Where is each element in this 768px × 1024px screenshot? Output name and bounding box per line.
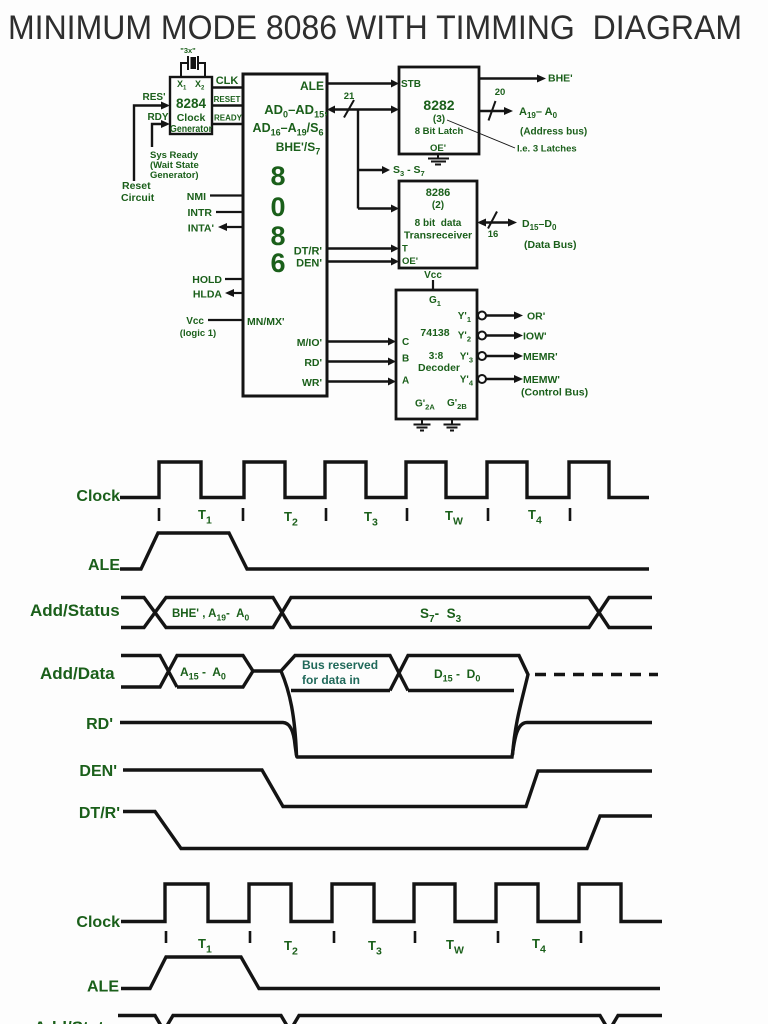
svg-text:74138: 74138 — [420, 327, 449, 339]
svg-text:Vcc: Vcc — [186, 316, 204, 327]
svg-text:MN/MX': MN/MX' — [247, 316, 285, 328]
svg-text:DEN': DEN' — [79, 763, 117, 780]
svg-text:Bus reserved: Bus reserved — [302, 658, 378, 672]
svg-text:Clock: Clock — [177, 112, 206, 124]
svg-text:D15–D0: D15–D0 — [522, 218, 557, 232]
svg-text:Clock: Clock — [76, 488, 120, 505]
svg-text:8: 8 — [270, 161, 285, 191]
svg-text:(logic 1): (logic 1) — [180, 328, 216, 339]
svg-text:8284: 8284 — [176, 96, 207, 111]
svg-text:CLK: CLK — [216, 75, 239, 87]
svg-text:(Data Bus): (Data Bus) — [524, 239, 577, 251]
svg-text:Vcc: Vcc — [424, 270, 442, 281]
svg-text:READY: READY — [214, 114, 243, 123]
svg-text:STB: STB — [401, 79, 421, 90]
svg-text:Reset: Reset — [122, 180, 151, 192]
svg-text:C: C — [402, 337, 409, 348]
svg-text:RDY: RDY — [147, 112, 168, 123]
svg-text:(3): (3) — [433, 114, 445, 125]
svg-text:HOLD: HOLD — [192, 274, 222, 286]
svg-text:RESET: RESET — [214, 95, 241, 104]
svg-text:MEMR': MEMR' — [523, 351, 558, 363]
svg-text:8: 8 — [270, 221, 285, 251]
svg-text:DEN': DEN' — [296, 258, 322, 270]
svg-text:BHE': BHE' — [548, 73, 573, 85]
svg-text:B: B — [402, 354, 409, 365]
svg-text:0: 0 — [270, 192, 285, 222]
svg-text:HLDA: HLDA — [193, 289, 223, 301]
svg-text:OR': OR' — [527, 311, 545, 323]
svg-text:3:8: 3:8 — [429, 351, 444, 362]
svg-text:S3 - S7: S3 - S7 — [393, 164, 425, 178]
svg-text:16: 16 — [488, 229, 499, 240]
svg-text:OE': OE' — [402, 256, 418, 267]
svg-text:T: T — [402, 244, 408, 255]
svg-text:INTR: INTR — [188, 207, 213, 219]
svg-text:(Address bus): (Address bus) — [520, 127, 587, 138]
svg-text:Generator: Generator — [170, 124, 212, 135]
svg-text:8286: 8286 — [426, 187, 450, 199]
svg-text:ALE: ALE — [87, 979, 119, 996]
svg-text:IOW': IOW' — [523, 331, 547, 343]
svg-text:6: 6 — [270, 248, 285, 278]
svg-text:M/IO': M/IO' — [297, 337, 322, 349]
svg-text:I.e. 3 Latches: I.e. 3 Latches — [517, 144, 577, 155]
svg-text:WR': WR' — [302, 377, 322, 389]
svg-text:MEMW': MEMW' — [523, 374, 560, 386]
svg-text:(Control Bus): (Control Bus) — [521, 387, 588, 399]
svg-text:RES': RES' — [143, 92, 166, 103]
svg-text:Circuit: Circuit — [121, 192, 155, 204]
svg-text:20: 20 — [495, 87, 506, 98]
svg-text:Decoder: Decoder — [418, 362, 460, 374]
svg-text:for data in: for data in — [302, 673, 360, 687]
svg-text:OE': OE' — [430, 143, 446, 154]
svg-text:Clock: Clock — [76, 914, 120, 931]
svg-text:A19– A0: A19– A0 — [519, 106, 558, 120]
svg-text:INTA': INTA' — [188, 223, 214, 235]
svg-text:NMI: NMI — [187, 191, 206, 203]
svg-text:MINIMUM MODE 8086 WITH TIMMING: MINIMUM MODE 8086 WITH TIMMING DIAGRAM — [8, 9, 742, 47]
svg-text:Add/Status: Add/Status — [34, 1018, 124, 1024]
svg-text:21: 21 — [344, 91, 355, 102]
svg-text:DT/R': DT/R' — [294, 246, 323, 258]
svg-text:RD': RD' — [86, 716, 113, 733]
svg-text:8 Bit Latch: 8 Bit Latch — [415, 126, 464, 137]
svg-text:Add/Status: Add/Status — [30, 601, 120, 620]
svg-text:ALE: ALE — [300, 79, 324, 93]
svg-text:8 bit data: 8 bit data — [415, 218, 462, 229]
svg-text:ALE: ALE — [88, 557, 120, 574]
svg-text:Transreceiver: Transreceiver — [404, 230, 472, 242]
svg-text:A: A — [402, 376, 409, 387]
svg-text:RD': RD' — [304, 357, 322, 369]
svg-text:8282: 8282 — [423, 97, 454, 113]
svg-text:Generator): Generator) — [150, 170, 199, 181]
svg-text:Add/Data: Add/Data — [40, 664, 115, 683]
svg-text:(2): (2) — [432, 200, 444, 211]
svg-text:"3x": "3x" — [180, 46, 196, 55]
svg-text:DT/R': DT/R' — [79, 805, 120, 822]
